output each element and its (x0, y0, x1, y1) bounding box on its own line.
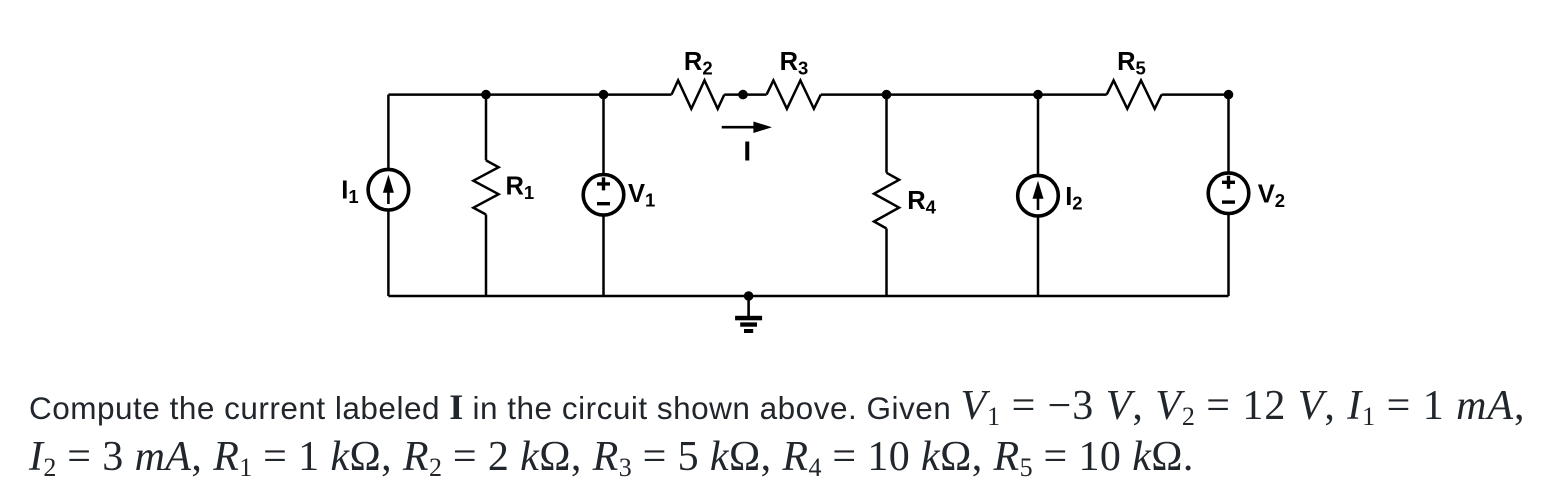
svg-text:R5: R5 (1117, 48, 1146, 79)
voltage source V1 (583, 175, 624, 216)
voltage source V2 (1208, 173, 1249, 214)
wire right rail (V2 branch) (1227, 95, 1230, 296)
resistor R4 (874, 173, 899, 229)
wire R1 branch (485, 95, 488, 296)
svg-text:I2: I2 (1065, 183, 1082, 214)
node dot V2 top (1224, 90, 1234, 100)
svg-text:R3: R3 (780, 48, 809, 79)
problem text line 2 (29, 432, 1194, 491)
resistor R2 (672, 80, 725, 108)
current source I2 (1018, 175, 1059, 216)
wire top rail segment between R2 and R3 (724, 93, 766, 96)
node dot R1 top (481, 90, 491, 100)
ground (735, 296, 762, 333)
problem text line 1 (29, 381, 1525, 440)
svg-text:R4: R4 (907, 187, 936, 218)
wire top rail segment right of R5 (1162, 93, 1229, 96)
wire R4 branch (885, 95, 888, 296)
node dot I2 top (1033, 90, 1043, 100)
wire left rail (387, 95, 390, 296)
wire V1 branch (602, 95, 605, 296)
resistor R1 (473, 160, 498, 214)
node dot ground (744, 291, 754, 301)
wire I2 branch (1037, 95, 1040, 296)
node dot V1 top (599, 90, 609, 100)
svg-text:R1: R1 (506, 172, 535, 203)
resistor R3 (767, 80, 821, 108)
circuit schematic (0, 0, 1566, 360)
wire bottom rail (388, 295, 1228, 298)
node dot between R2 and R3 (738, 90, 748, 100)
wire top rail segment between R3 and R5 (821, 93, 1107, 96)
resistor R5 (1107, 80, 1162, 108)
current arrow I (722, 122, 772, 134)
node dot R4 top (882, 90, 892, 100)
svg-text:I1: I1 (341, 177, 358, 208)
current source I1 (368, 169, 409, 210)
svg-text:V2: V2 (1258, 180, 1285, 211)
svg-text:R2: R2 (684, 48, 713, 79)
svg-text:V1: V1 (628, 180, 655, 211)
svg-text:I: I (743, 135, 751, 166)
wire top rail segment left (388, 93, 671, 96)
